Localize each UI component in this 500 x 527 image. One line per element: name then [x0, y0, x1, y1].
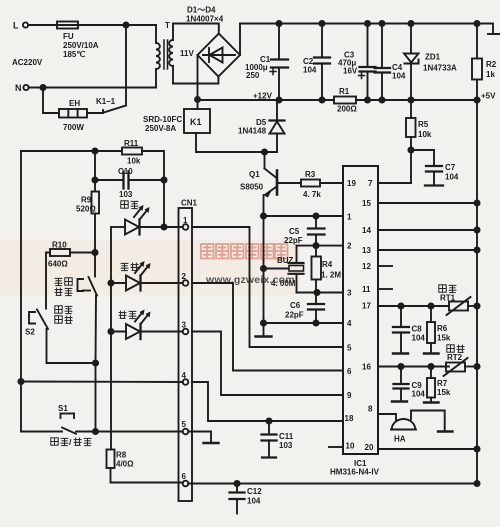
wire N junction to primary bottom — [43, 87, 156, 89]
svg-text:103: 103 — [279, 441, 293, 450]
junction dot R4 bottom/C6 — [314, 290, 319, 295]
wire bridge right vertex to top rail — [239, 24, 241, 56]
wire left rail — [20, 151, 22, 432]
junction dot pin13/rail — [474, 247, 479, 252]
svg-text:22pF: 22pF — [285, 311, 304, 320]
junction dot ZD1 top rail — [408, 21, 413, 26]
resistor R5 — [406, 100, 416, 150]
resistor R4 — [312, 246, 322, 293]
wire top rail — [240, 24, 500, 35]
svg-text:10k: 10k — [127, 157, 141, 166]
LED D7 zhuhao — [111, 261, 183, 291]
resistor R9 — [92, 151, 100, 253]
svg-text:19: 19 — [347, 179, 356, 188]
capacitor C6 — [308, 293, 324, 324]
capacitor C10 — [95, 172, 164, 189]
ground emitter rail — [256, 335, 272, 337]
svg-text:22pF: 22pF — [284, 236, 303, 245]
IC U1 HM316-N4-IV box — [343, 166, 378, 454]
wire IC pin17 — [378, 305, 449, 307]
wire IC pin4 — [264, 322, 344, 324]
node L terminal — [23, 22, 28, 27]
svg-text:SRD-10FC: SRD-10FC — [143, 115, 182, 124]
svg-text:103: 103 — [119, 190, 133, 199]
wire CN1 pin6 line right — [188, 483, 477, 485]
svg-text:7: 7 — [368, 179, 373, 188]
junction dot pin20/rail — [474, 446, 479, 451]
ground CN1 pin5 — [188, 432, 218, 444]
switch S2 pole a — [78, 253, 98, 364]
switch K1-1 — [103, 25, 126, 113]
junction dot R9 top — [92, 148, 97, 153]
junction dot C10 left — [92, 177, 97, 182]
junction dot RT2/rail — [474, 364, 479, 369]
capacitor C2 — [314, 24, 330, 101]
junction dot C5 top — [313, 213, 318, 218]
node CN1 pin5 — [183, 429, 189, 435]
junction dot C3 top rail — [365, 21, 370, 26]
fuse FU — [57, 22, 78, 29]
svg-text:C6: C6 — [290, 301, 301, 310]
junction dot +5V right rail — [474, 97, 479, 102]
svg-text:T: T — [165, 21, 170, 30]
thermistor RT1 — [447, 297, 478, 315]
svg-text:11V: 11V — [180, 49, 194, 58]
svg-text:C8: C8 — [412, 325, 423, 334]
resistor R7 — [424, 367, 439, 403]
svg-text:8: 8 — [368, 405, 373, 414]
svg-text:104: 104 — [412, 334, 426, 343]
resistor R3 — [278, 180, 343, 187]
junction dot R4 top — [313, 243, 318, 248]
junction dot C1/D5 +12V — [276, 97, 281, 102]
svg-text:1N4007×4: 1N4007×4 — [186, 15, 224, 24]
svg-text:104: 104 — [445, 173, 459, 182]
junction dot C6 bottom — [313, 320, 318, 325]
wire S2 common down to S1 line — [95, 363, 97, 432]
wire EH to K1-1 contact — [87, 112, 103, 114]
wire secondary bottom to bridge — [173, 77, 218, 84]
svg-text:520Ω: 520Ω — [76, 205, 96, 214]
junction dot emitter rail/pin4 — [261, 320, 266, 325]
switch S1 — [21, 414, 76, 434]
junction dot S1/S2 — [93, 429, 98, 434]
junction dot LED2 anode — [108, 280, 113, 285]
svg-text:+5V: +5V — [481, 92, 496, 101]
thermistor RT2 — [444, 358, 478, 376]
wire CN1 pin2 to IC pin6 — [192, 283, 343, 371]
svg-text:640Ω: 640Ω — [48, 260, 68, 269]
junction dot left rail/pin4 line — [18, 379, 23, 384]
junction dot C4 +5V rail — [379, 97, 384, 102]
LED D8 jingzhu — [111, 310, 183, 340]
svg-text:R4: R4 — [322, 260, 333, 269]
svg-text:4: 4 — [347, 319, 352, 328]
svg-text:20: 20 — [365, 443, 374, 452]
svg-text:104: 104 — [392, 72, 406, 81]
capacitor C1 — [270, 24, 288, 101]
svg-text:R6: R6 — [437, 324, 448, 333]
wire IC pin7 — [378, 182, 411, 184]
TEXT LABELS PART 2 — [238, 51, 497, 477]
junction dot C9 top — [398, 364, 403, 369]
wire IC pin13 — [378, 249, 477, 251]
svg-text:K1: K1 — [190, 117, 202, 127]
svg-text:104: 104 — [247, 497, 261, 506]
wire IC pin15 — [378, 202, 477, 204]
IC pin number labels — [345, 179, 374, 452]
wire R11 to corner — [142, 151, 164, 227]
svg-text:250V/10A: 250V/10A — [63, 41, 99, 50]
junction dot emitter/pin1 — [261, 213, 266, 218]
node CN1 pin1 — [183, 224, 189, 230]
TEXT LABELS PART 3 — [25, 139, 341, 506]
junction dot N/EH — [40, 85, 45, 90]
label guogai (RT2) — [447, 345, 454, 352]
svg-text:15k: 15k — [437, 334, 451, 343]
svg-text:R2: R2 — [486, 60, 497, 69]
junction dot R9/R10 — [92, 250, 97, 255]
wire R11 top line — [21, 150, 122, 152]
svg-text:200Ω: 200Ω — [337, 105, 357, 114]
svg-text:BUZ: BUZ — [277, 256, 294, 265]
wire K1 bottom to D5 node — [196, 133, 277, 152]
svg-text:104: 104 — [412, 390, 426, 399]
svg-text:R1: R1 — [339, 87, 350, 96]
svg-text:D1～D4: D1～D4 — [187, 6, 216, 15]
wire buzzer to ground — [411, 411, 445, 432]
capacitor C7 — [411, 150, 443, 186]
resistor R2 — [472, 24, 482, 101]
junction dot C2 top rail — [319, 21, 324, 26]
junction dot S2 common — [93, 360, 98, 365]
svg-text:700W: 700W — [63, 123, 84, 132]
svg-text:12: 12 — [362, 262, 371, 271]
Chinese labels as glyph blocks — [51, 201, 139, 447]
wire CN1 pin4 to IC pin18 — [192, 382, 343, 421]
svg-text:N: N — [15, 83, 22, 93]
ground buzzer — [438, 430, 453, 432]
red watermark 精通维修 www.gzweix.com — [0, 240, 300, 295]
MAIN INK — [23, 22, 500, 155]
junction dot pin15/rail — [474, 200, 479, 205]
svg-text:10: 10 — [346, 442, 355, 451]
junction dot rail bottom — [474, 481, 479, 486]
svg-text:16: 16 — [362, 363, 371, 372]
capacitor C12 — [230, 484, 245, 514]
svg-text:FU: FU — [63, 32, 74, 41]
label zhuhao (LED2) — [121, 263, 129, 270]
svg-text:3: 3 — [347, 289, 352, 298]
svg-text:S8050: S8050 — [240, 183, 264, 192]
svg-text:2: 2 — [347, 242, 352, 251]
diode D5 — [270, 100, 285, 152]
svg-text:1N4733A: 1N4733A — [423, 64, 457, 73]
junction dot L/K1-1 — [123, 22, 128, 27]
wire +5V rail — [356, 99, 477, 101]
bridge rectifier D1-D4 — [198, 34, 241, 77]
svg-text:10k: 10k — [418, 130, 432, 139]
wire IC pin10 stub — [329, 446, 343, 448]
svg-text:6: 6 — [182, 472, 187, 481]
junction dot LED3 anode — [108, 329, 113, 334]
relay K1 — [184, 100, 210, 134]
svg-text:ZD1: ZD1 — [425, 53, 441, 62]
svg-text:L: L — [13, 21, 19, 31]
resistor R1 — [334, 97, 356, 104]
resistor R6 — [424, 306, 439, 354]
svg-text:RT1: RT1 — [440, 294, 456, 303]
svg-text:R9: R9 — [81, 196, 92, 205]
svg-text:CN1: CN1 — [181, 199, 198, 208]
junction dot RT1/rail — [474, 303, 479, 308]
wire IC pin16 — [378, 366, 449, 368]
svg-text:RT2: RT2 — [447, 353, 463, 362]
wire secondary top to bridge — [173, 24, 219, 34]
svg-text:4. 7k: 4. 7k — [303, 190, 321, 199]
wire R5 node down to IC pin7 — [410, 150, 412, 183]
capacitor C3 — [359, 24, 376, 101]
junction dot C8 top — [398, 303, 403, 308]
junction dot ZD1/R5 +5V rail — [408, 97, 413, 102]
junction dot LED1 row — [161, 224, 166, 229]
svg-text:4/0Ω: 4/0Ω — [116, 460, 134, 469]
junction dot C4 top rail — [379, 21, 384, 26]
junction dot C2 +12V rail — [319, 97, 324, 102]
node CN1 pin3 — [183, 329, 189, 335]
capacitor C9 — [392, 367, 409, 402]
svg-text:HM316-N4-IV: HM316-N4-IV — [330, 468, 380, 477]
svg-text:11: 11 — [362, 285, 371, 294]
junction dot C12 — [234, 481, 239, 486]
junction dot crystal left — [261, 266, 266, 271]
svg-text:250V-8A: 250V-8A — [145, 124, 176, 133]
svg-text:13: 13 — [362, 246, 371, 255]
svg-text:S1: S1 — [58, 404, 68, 413]
wire L to fuse — [28, 24, 57, 26]
capacitor C4 — [375, 24, 391, 101]
LED D6 baowen — [111, 205, 183, 235]
wire IC pin1 — [264, 215, 344, 217]
wire Q1 emitter ground rail — [263, 216, 265, 336]
wire IC pin2 — [297, 245, 344, 247]
resistor R11 — [122, 148, 142, 155]
TEXT LABELS PART 4 — [394, 294, 463, 444]
junction dot Q1 collector node — [262, 149, 267, 154]
svg-text:R10: R10 — [52, 241, 67, 250]
svg-text:15k: 15k — [437, 388, 451, 397]
node N terminal — [23, 85, 28, 90]
svg-text:1N4148: 1N4148 — [238, 127, 267, 136]
switch S2 pole b — [29, 310, 96, 364]
svg-text:18: 18 — [345, 414, 354, 423]
wire right rail — [476, 100, 478, 484]
heater EH — [59, 109, 87, 118]
label baowen (LED1) — [121, 201, 128, 208]
buzzer HA — [391, 419, 416, 430]
svg-text:4. 00M: 4. 00M — [271, 279, 296, 288]
svg-text:S2: S2 — [25, 328, 35, 337]
junction dot R6 top — [428, 303, 433, 308]
svg-text:C12: C12 — [247, 487, 262, 496]
svg-text:Q1: Q1 — [249, 170, 260, 179]
svg-text:5: 5 — [347, 344, 352, 353]
wire IC pin3 — [297, 292, 344, 294]
svg-text:1: 1 — [183, 216, 188, 225]
node CN1 pin4 — [183, 379, 189, 385]
svg-text:250: 250 — [246, 71, 260, 80]
wire bridge left vertex down to +12V node — [197, 55, 199, 100]
resistor R8 — [107, 450, 183, 483]
wire CN1 pin3 to IC pin9 — [192, 332, 343, 396]
label baowen/quxiao (S1) — [51, 438, 58, 445]
wire IC pin14 — [378, 229, 477, 231]
transistor Q1 — [264, 152, 278, 216]
wire fuse to K1-1 junction — [78, 24, 126, 26]
svg-text:R3: R3 — [305, 170, 316, 179]
junction dot C11 top — [266, 418, 271, 423]
wire N to junction — [29, 87, 43, 89]
wire +12V rail — [198, 99, 335, 101]
transformer T core — [164, 40, 168, 69]
svg-text:14: 14 — [362, 226, 371, 235]
wire IC pin11 stub — [378, 288, 392, 290]
junction dot bridge/K1/+12V — [195, 97, 200, 102]
junction dot R7 top — [428, 364, 433, 369]
svg-text:C11: C11 — [279, 432, 294, 441]
svg-text:4: 4 — [182, 371, 187, 380]
zener diode ZD1 — [404, 24, 419, 101]
wire IC pin8 to buzzer — [378, 414, 396, 420]
svg-text:1. 2M: 1. 2M — [321, 271, 341, 280]
svg-text:R11: R11 — [124, 139, 139, 148]
svg-text:C5: C5 — [289, 227, 300, 236]
svg-text:1: 1 — [347, 213, 352, 222]
svg-text:185℃: 185℃ — [63, 50, 85, 59]
wire CN1 pin1 to IC pin5 — [192, 227, 343, 347]
label baotang baozhou (S2b) — [55, 306, 62, 313]
svg-text:16V: 16V — [343, 67, 358, 76]
wire CN1 pin4 left line — [21, 381, 183, 384]
svg-text:5: 5 — [182, 420, 187, 429]
svg-text:6: 6 — [347, 367, 352, 376]
label jingzhu (LED3) — [119, 311, 127, 319]
svg-text:9: 9 — [347, 391, 352, 400]
node CN1 pin6 — [183, 481, 189, 487]
LED anode rail — [110, 227, 112, 450]
junction dot R5/C7 — [408, 147, 413, 152]
junction dot C3 +5V rail — [365, 97, 370, 102]
TEXT LABELS PART 1 — [12, 6, 357, 134]
svg-text:R7: R7 — [437, 379, 448, 388]
capacitor C11 — [262, 421, 277, 458]
wire N junction down to EH — [43, 88, 59, 114]
svg-text:15: 15 — [362, 199, 371, 208]
transformer T primary — [156, 25, 160, 88]
capacitor C8 — [393, 306, 409, 354]
label guodi (RT1) — [439, 285, 446, 292]
junction dot C10 right — [161, 177, 166, 182]
svg-text:C7: C7 — [445, 163, 456, 172]
junction dot C1 top rail — [276, 21, 281, 26]
svg-text:104: 104 — [303, 66, 317, 75]
connector CN1 — [179, 208, 193, 501]
svg-text:17: 17 — [362, 302, 371, 311]
svg-text:1k: 1k — [486, 70, 495, 79]
wire junction to transformer primary top — [126, 24, 156, 26]
wire S1 to CN1 pin5 — [76, 431, 183, 433]
wire IC pin20 — [378, 448, 477, 450]
crystal BUZ 4.00M — [264, 246, 318, 293]
junction dot pin14/rail — [474, 227, 479, 232]
transformer T secondary — [169, 24, 173, 84]
svg-text:C10: C10 — [118, 167, 133, 176]
svg-text:2: 2 — [182, 272, 187, 281]
junction dot R2 top rail — [474, 21, 479, 26]
resistor R10 — [46, 249, 95, 309]
svg-text:AC220V: AC220V — [12, 58, 43, 67]
svg-text:3: 3 — [182, 321, 187, 330]
svg-text:R8: R8 — [116, 451, 127, 460]
node CN1 pin2 — [183, 280, 189, 286]
svg-text:R5: R5 — [418, 120, 429, 129]
svg-text:+12V: +12V — [253, 92, 273, 101]
svg-text:HA: HA — [394, 435, 406, 444]
CN1 pin number labels — [182, 216, 189, 481]
capacitor C5 — [308, 216, 325, 246]
svg-text:EH: EH — [69, 99, 80, 108]
label zhufan zhengdun (S2a) — [55, 278, 63, 285]
svg-text:K1–1: K1–1 — [96, 97, 116, 106]
wire IC pin12 stub — [378, 265, 392, 267]
